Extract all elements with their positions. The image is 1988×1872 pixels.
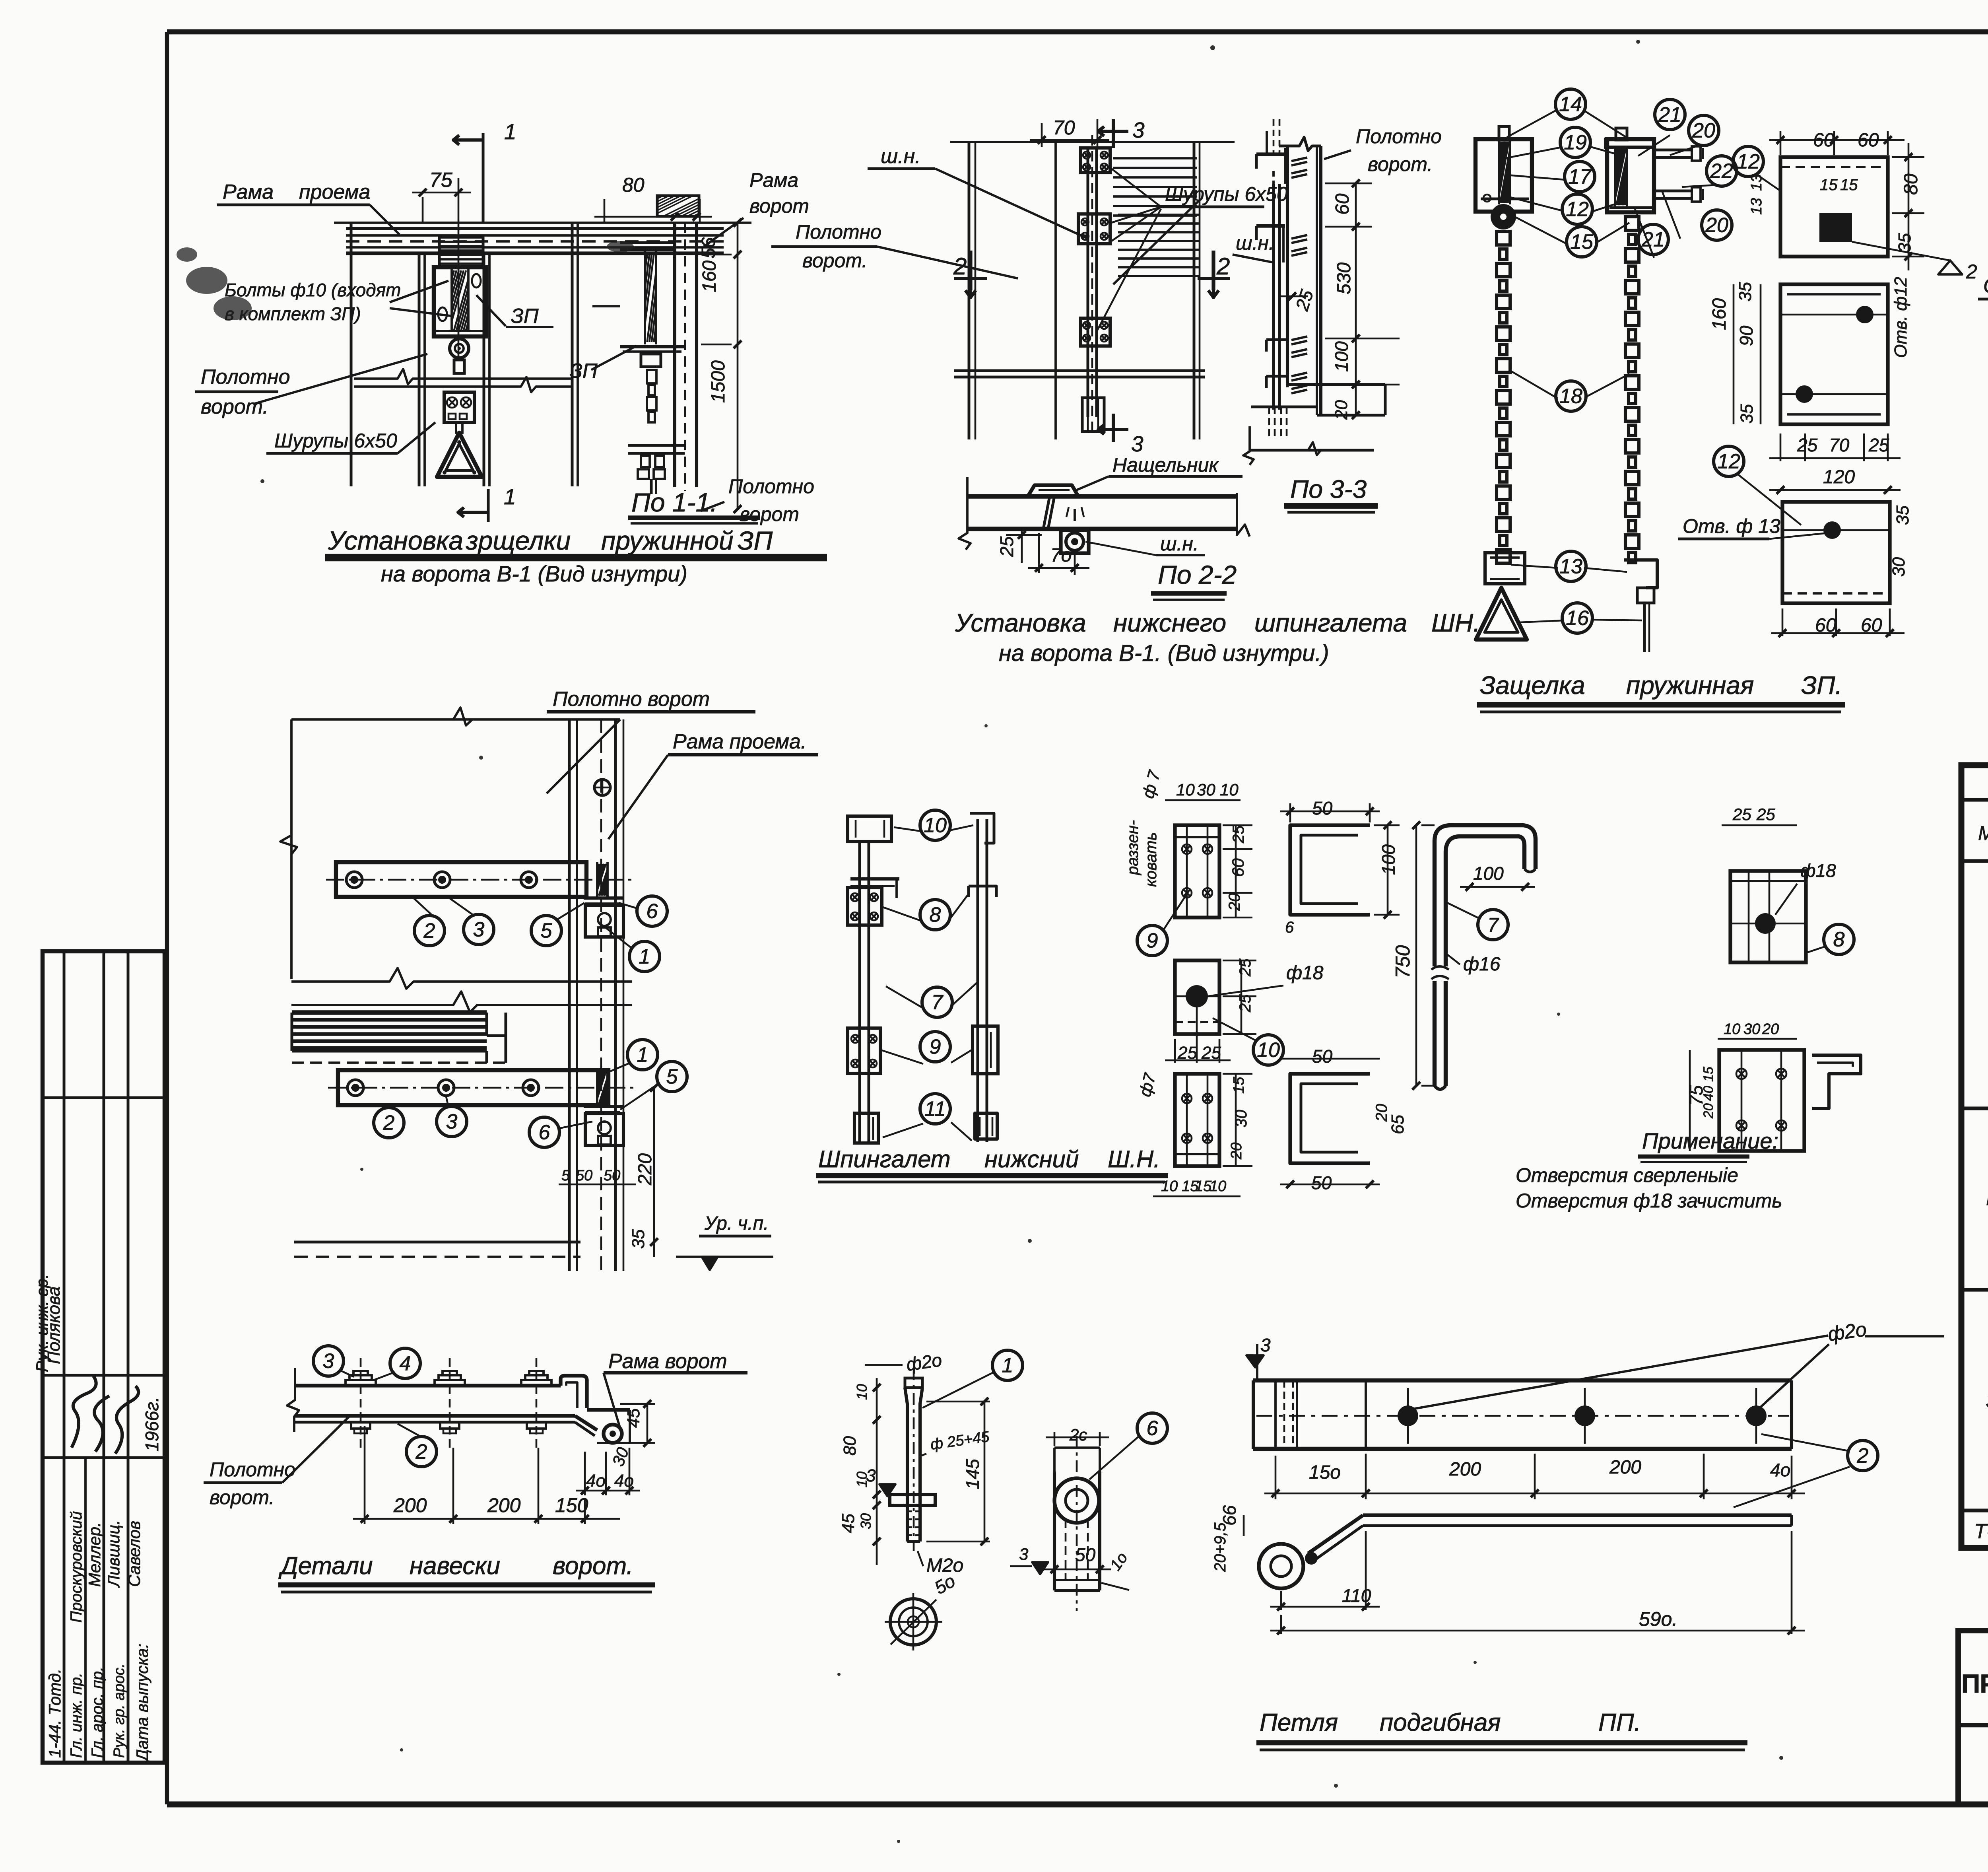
svg-text:Отверстия ф18 зачистить: Отверстия ф18 зачистить — [1516, 1190, 1782, 1212]
svg-text:навески: навески — [410, 1552, 500, 1580]
svg-text:Рама проема.: Рама проема. — [673, 730, 806, 753]
svg-text:50: 50 — [1312, 798, 1333, 818]
bottom-left title — [278, 1552, 655, 1592]
svg-text:20: 20 — [1332, 400, 1351, 420]
svg-text:220: 220 — [635, 1153, 656, 1186]
detail A main title — [325, 526, 827, 586]
svg-text:45: 45 — [624, 1408, 643, 1428]
svg-text:1500: 1500 — [708, 360, 729, 403]
svg-text:50: 50 — [1311, 1172, 1332, 1193]
svg-text:1966г.: 1966г. — [142, 1397, 162, 1452]
mid-left break band — [291, 968, 632, 1012]
svg-text:200: 200 — [1449, 1459, 1481, 1480]
svg-text:35: 35 — [1895, 233, 1914, 253]
svg-text:50: 50 — [1075, 1544, 1096, 1565]
svg-text:15: 15 — [1231, 1077, 1247, 1094]
svg-text:7о: 7о — [1050, 545, 1072, 566]
svg-text:ковать: ковать — [1142, 832, 1160, 887]
detail A labels — [195, 181, 553, 453]
svg-text:15: 15 — [1701, 1067, 1716, 1082]
svg-text:25: 25 — [1868, 435, 1889, 455]
table rows group ZP — [1986, 1289, 1988, 1505]
svg-text:раззен-: раззен- — [1124, 820, 1142, 875]
svg-text:100: 100 — [1331, 341, 1352, 372]
svg-text:ЗП: ЗП — [570, 360, 598, 383]
specification table grid — [1961, 765, 1988, 1548]
svg-text:11: 11 — [924, 1098, 946, 1121]
svg-text:подгибная: подгибная — [1380, 1709, 1501, 1736]
svg-text:20: 20 — [1701, 1103, 1716, 1119]
svg-text:Нащельник: Нащельник — [1112, 454, 1219, 476]
svg-text:ворот: ворот — [749, 195, 809, 217]
svg-text:80: 80 — [622, 174, 645, 196]
svg-text:40: 40 — [1701, 1086, 1716, 1101]
svg-text:Полотно: Полотно — [796, 221, 881, 243]
svg-text:18: 18 — [1559, 385, 1582, 408]
detail: plate with f18 hole (mid) — [1165, 958, 1324, 1065]
svg-text:1-44. Тотд.: 1-44. Тотд. — [45, 1669, 64, 1758]
svg-text:60: 60 — [1229, 858, 1247, 877]
detail: PP hinge — top (plan) view — [1246, 1318, 1944, 1499]
svg-text:10: 10 — [1257, 1039, 1280, 1062]
detail C callouts — [1501, 89, 1737, 633]
detail C plate 12 middle view — [1709, 277, 1910, 494]
svg-text:Шурупы 6х50: Шурупы 6х50 — [274, 430, 397, 452]
detail C plate 12 bottom view — [1678, 146, 1988, 637]
svg-text:ворот.: ворот. — [210, 1486, 274, 1508]
table column headers — [1978, 771, 1988, 859]
detail B right labels & title — [955, 125, 1480, 666]
svg-text:Полотно: Полотно — [201, 365, 290, 389]
svg-text:3: 3 — [473, 918, 485, 941]
svg-text:5: 5 — [541, 919, 553, 943]
detail: gate hanging strap (bottom-left) — [287, 1358, 630, 1448]
detail B labels — [771, 145, 1288, 330]
svg-text:на ворота В-1. (Вид изн: на ворота В-1. (Вид изнутри.) — [999, 640, 1329, 666]
PP hinge title — [1256, 1709, 1747, 1750]
svg-text:30: 30 — [1889, 557, 1908, 577]
svg-text:ш.н.: ш.н. — [1160, 533, 1199, 555]
svg-text:Полякова: Полякова — [44, 1287, 64, 1364]
svg-text:По 2-2: По 2-2 — [1158, 560, 1237, 589]
detail: spring latch ZP assembly — right chain view — [1606, 128, 1703, 652]
detail: ShN — section Po 3-3 — [1243, 119, 1400, 465]
ShN callouts — [881, 810, 977, 1141]
svg-text:30: 30 — [1197, 780, 1215, 799]
svg-text:ворот.: ворот. — [553, 1552, 633, 1580]
svg-text:8: 8 — [1833, 928, 1845, 951]
svg-text:Полотно: Полотно — [1356, 125, 1442, 148]
svg-text:1: 1 — [637, 1044, 648, 1067]
svg-text:на ворота В-1 (Вид изнутр: на ворота В-1 (Вид изнутри) — [381, 561, 687, 586]
svg-text:145: 145 — [962, 1459, 983, 1489]
svg-text:Марка: Марка — [1978, 822, 1988, 844]
svg-text:50: 50 — [604, 1167, 620, 1184]
svg-text:Установка: Установка — [955, 608, 1086, 637]
svg-text:ворот: ворот — [740, 503, 799, 525]
svg-text:35: 35 — [1737, 404, 1757, 424]
svg-text:10: 10 — [1724, 1021, 1740, 1038]
svg-text:80: 80 — [840, 1436, 860, 1456]
svg-text:19: 19 — [1564, 131, 1587, 154]
svg-text:30: 30 — [858, 1513, 874, 1529]
svg-text:21: 21 — [1658, 103, 1681, 126]
svg-text:9: 9 — [930, 1036, 941, 1059]
svg-text:70: 70 — [1053, 117, 1075, 139]
svg-text:Установка: Установка — [328, 526, 463, 555]
svg-text:Рама ворот: Рама ворот — [608, 1350, 727, 1373]
svg-text:120: 120 — [1823, 467, 1855, 488]
svg-text:2: 2 — [1216, 253, 1230, 280]
svg-text:50: 50 — [576, 1167, 592, 1184]
svg-text:пружинная: пружинная — [1626, 671, 1754, 700]
detail: part 6 eye — [1010, 1413, 1167, 1611]
svg-text:14: 14 — [1559, 93, 1582, 116]
svg-text:13: 13 — [1748, 198, 1765, 215]
svg-text:Рама: Рама — [749, 169, 798, 191]
svg-text:17: 17 — [1568, 165, 1592, 189]
svg-text:ЗП: ЗП — [511, 305, 539, 328]
svg-text:Петля: Петля — [1260, 1709, 1338, 1736]
detail: installation of spring latch ZP — plan view — [334, 119, 751, 522]
svg-text:3: 3 — [1019, 1545, 1028, 1563]
svg-text:35: 35 — [1736, 282, 1755, 301]
svg-text:10: 10 — [1176, 780, 1195, 799]
svg-text:160: 160 — [699, 260, 720, 292]
svg-text:ШН.: ШН. — [1431, 608, 1480, 637]
svg-text:ш.н.: ш.н. — [881, 145, 921, 168]
svg-text:3: 3 — [1132, 118, 1145, 142]
detail: spring latch ZP assembly — left chain view — [1475, 126, 1532, 640]
svg-text:Т-90: Т-90 — [1974, 1520, 1988, 1543]
svg-text:Рама: Рама — [223, 181, 274, 204]
svg-text:1: 1 — [504, 119, 516, 144]
svg-text:Меллер.: Меллер. — [85, 1522, 104, 1587]
svg-text:Ур. ч.п.: Ур. ч.п. — [704, 1213, 769, 1234]
svg-text:Шпингалет: Шпингалет — [818, 1146, 951, 1172]
svg-text:2: 2 — [1966, 260, 1977, 283]
svg-text:Ш.Н.: Ш.Н. — [1108, 1146, 1160, 1172]
svg-text:25: 25 — [1230, 825, 1247, 844]
svg-text:750: 750 — [1392, 945, 1414, 978]
svg-text:15о: 15о — [1309, 1462, 1341, 1483]
svg-text:пружинной: пружинной — [601, 526, 734, 555]
svg-text:12: 12 — [1717, 450, 1740, 473]
svg-text:6: 6 — [1285, 919, 1294, 936]
title block — [1958, 1631, 1988, 1804]
svg-text:2: 2 — [1857, 1444, 1869, 1468]
svg-text:ПРОМСТРОЙПРОЕКТ: ПРОМСТРОЙПРОЕКТ — [1961, 1668, 1988, 1698]
detail: ShN bolt — two assemblies — [848, 813, 998, 1143]
svg-text:20: 20 — [1762, 1021, 1779, 1038]
svg-text:25: 25 — [996, 536, 1017, 557]
svg-text:25: 25 — [1797, 435, 1818, 455]
svg-text:проема: проема — [299, 181, 370, 204]
svg-text:65: 65 — [1388, 1115, 1408, 1134]
bottom-left labels — [204, 1346, 747, 1524]
svg-text:200: 200 — [1609, 1457, 1641, 1478]
svg-text:Рук. гр. арос.: Рук. гр. арос. — [111, 1664, 128, 1758]
svg-text:Болты ф10 (входят: Болты ф10 (входят — [225, 280, 401, 300]
detail: PP hinge — side view with curl — [1211, 1434, 1878, 1635]
svg-text:10: 10 — [854, 1384, 870, 1400]
svg-text:10: 10 — [1161, 1178, 1178, 1195]
svg-text:1: 1 — [504, 484, 516, 509]
detail: part 9 plates with dims — [1124, 768, 1400, 956]
svg-text:90: 90 — [1736, 325, 1757, 346]
svg-text:ЗП: ЗП — [738, 526, 773, 555]
svg-text:12: 12 — [1737, 150, 1760, 173]
detail: installation of lower bolt ShN — elevation — [950, 117, 1235, 456]
svg-text:530: 530 — [1334, 262, 1355, 294]
svg-text:Гл. инж. пр.: Гл. инж. пр. — [68, 1673, 85, 1758]
svg-text:ш.н.: ш.н. — [1236, 232, 1274, 254]
svg-text:9: 9 — [1147, 929, 1158, 953]
svg-text:12: 12 — [1566, 198, 1589, 221]
table rows group ShN — [1986, 1114, 1988, 1263]
svg-text:2с: 2с — [1069, 1425, 1087, 1444]
svg-text:Гл. арос. пр.: Гл. арос. пр. — [89, 1667, 106, 1758]
detail: latch ZP installation — section Po 1-1 — [570, 196, 742, 513]
svg-text:3: 3 — [446, 1110, 458, 1133]
svg-text:3: 3 — [866, 1466, 876, 1485]
svg-text:80: 80 — [1901, 173, 1922, 195]
svg-text:200: 200 — [393, 1494, 427, 1516]
svg-text:Дата выпуска:: Дата выпуска: — [133, 1644, 151, 1763]
detail: part 10 plate + channel (bottom) — [1135, 1046, 1408, 1196]
svg-text:60: 60 — [1332, 193, 1353, 215]
svg-text:25: 25 — [1756, 805, 1775, 824]
svg-text:1: 1 — [1002, 1354, 1013, 1377]
svg-text:Отв. ф12: Отв. ф12 — [1891, 277, 1910, 358]
svg-text:ворот.: ворот. — [802, 249, 867, 272]
ShN title — [816, 1146, 1168, 1182]
svg-text:Применание:: Применание: — [1642, 1128, 1778, 1153]
detail: ZP plate 12 — three views with dimensions — [1748, 130, 1977, 283]
svg-text:13: 13 — [1559, 555, 1582, 578]
svg-text:25: 25 — [1732, 805, 1751, 824]
detail: gate hinge installation — lower hinge — [292, 1013, 773, 1270]
signature block (left margin) — [33, 951, 165, 1763]
svg-text:7: 7 — [1487, 914, 1499, 936]
svg-text:16: 16 — [1566, 607, 1589, 630]
mid-left callouts (lower) — [374, 1040, 687, 1147]
svg-text:70: 70 — [1829, 435, 1850, 455]
svg-text:Защелка: Защелка — [1480, 671, 1585, 700]
svg-text:Отверстия сверленыiе: Отверстия сверленыiе — [1516, 1164, 1738, 1186]
detail: ShN — section Po 2-2 — [959, 454, 1250, 600]
svg-text:3: 3 — [1131, 432, 1143, 456]
svg-text:59о.: 59о. — [1639, 1608, 1677, 1630]
svg-text:50: 50 — [1312, 1046, 1333, 1067]
svg-text:110: 110 — [1342, 1585, 1371, 1606]
svg-text:2: 2 — [423, 919, 435, 943]
svg-text:По 1-1.: По 1-1. — [631, 488, 718, 517]
svg-text:По 3-3: По 3-3 — [1290, 475, 1367, 503]
svg-text:ШН: ШН — [1986, 1185, 1988, 1210]
svg-text:45: 45 — [839, 1514, 858, 1533]
svg-text:15: 15 — [1570, 231, 1594, 254]
svg-text:ЗП: ЗП — [1986, 1388, 1988, 1413]
svg-text:4о: 4о — [1770, 1460, 1790, 1480]
svg-text:20: 20 — [1705, 214, 1728, 237]
svg-text:6: 6 — [1147, 1417, 1158, 1440]
svg-text:160: 160 — [1709, 298, 1730, 330]
svg-text:10: 10 — [1220, 780, 1239, 799]
svg-text:1: 1 — [639, 945, 650, 968]
svg-text:75: 75 — [429, 169, 453, 192]
svg-text:2: 2 — [383, 1112, 395, 1135]
svg-text:ЗП.: ЗП. — [1801, 671, 1842, 700]
note: primechanie — [1516, 1128, 1782, 1212]
table row T-90 — [1974, 1520, 1988, 1547]
svg-text:4: 4 — [400, 1352, 411, 1375]
svg-text:2: 2 — [415, 1440, 427, 1464]
svg-text:Детали: Детали — [278, 1552, 373, 1580]
svg-text:200: 200 — [487, 1494, 521, 1516]
detail: part 8 plates right — [1686, 805, 1861, 1151]
svg-text:20: 20 — [1692, 119, 1715, 142]
detail C title — [1477, 671, 1845, 712]
svg-text:ф18: ф18 — [1800, 860, 1836, 881]
svg-text:нижсний: нижсний — [984, 1146, 1079, 1172]
svg-text:6: 6 — [539, 1121, 550, 1144]
svg-text:шпингалета: шпингалета — [1254, 608, 1407, 637]
svg-text:Отв. ф 23: Отв. ф 23 — [1983, 274, 1988, 297]
title block: publisher cell — [1961, 1638, 1988, 1800]
svg-text:100: 100 — [1473, 863, 1504, 884]
svg-text:5: 5 — [666, 1065, 678, 1089]
svg-text:10: 10 — [1209, 1178, 1226, 1195]
svg-text:Полотно: Полотно — [728, 475, 814, 498]
svg-text:30: 30 — [1743, 1021, 1760, 1038]
svg-text:ПП.: ПП. — [1598, 1709, 1641, 1736]
svg-text:7: 7 — [932, 991, 944, 1014]
svg-text:3: 3 — [1260, 1335, 1271, 1355]
detail A right labels — [594, 169, 814, 525]
svg-text:Шурупы 6х50: Шурупы 6х50 — [1165, 183, 1288, 205]
svg-text:6: 6 — [646, 900, 658, 923]
svg-text:Савелов: Савелов — [125, 1521, 144, 1587]
detail: part 1 axle bolt — [839, 1349, 1023, 1650]
detail: part 7 bent rod F-shape — [1392, 821, 1536, 1090]
detail: gate hinge installation — upper hinge — [280, 708, 634, 1271]
scan smudges — [177, 241, 634, 320]
svg-text:8: 8 — [930, 904, 941, 927]
svg-text:Отв. ф 13.: Отв. ф 13. — [1683, 515, 1786, 537]
svg-text:35: 35 — [1893, 505, 1912, 525]
svg-text:ф18: ф18 — [1286, 962, 1324, 984]
svg-text:15: 15 — [1840, 176, 1858, 194]
svg-text:35: 35 — [629, 1229, 648, 1249]
svg-text:зрщелки: зрщелки — [466, 526, 571, 555]
svg-text:20+9,5: 20+9,5 — [1211, 1522, 1229, 1572]
svg-text:20: 20 — [1226, 893, 1243, 912]
mid-left labels and callouts (upper) — [414, 688, 818, 972]
svg-text:66: 66 — [1219, 1505, 1240, 1526]
svg-text:3: 3 — [323, 1350, 334, 1373]
svg-text:ворот.: ворот. — [1368, 153, 1433, 175]
svg-text:21: 21 — [1641, 228, 1665, 251]
svg-text:Лившиц.: Лившиц. — [104, 1520, 123, 1588]
svg-text:ф16: ф16 — [1463, 954, 1501, 975]
svg-text:22: 22 — [1710, 160, 1733, 183]
svg-text:150: 150 — [555, 1494, 588, 1516]
svg-text:ворот.: ворот. — [201, 395, 268, 418]
svg-text:Полотно: Полотно — [210, 1458, 295, 1481]
svg-text:10: 10 — [924, 814, 947, 837]
svg-text:Проскуровский: Проскуровский — [68, 1511, 85, 1623]
svg-text:5: 5 — [561, 1167, 570, 1184]
svg-text:Полотно ворот: Полотно ворот — [553, 688, 710, 711]
svg-text:15: 15 — [1820, 176, 1838, 194]
svg-text:нижснего: нижснего — [1113, 608, 1226, 637]
